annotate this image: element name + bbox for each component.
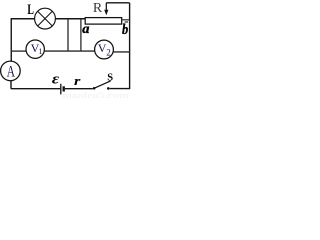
wire: bottom left (ammeter to battery) [11, 88, 60, 90]
switch S: right contact dot [107, 87, 110, 90]
rheostat R body [85, 18, 122, 25]
wire: left vertical branch to voltmeter V1 [11, 50, 26, 52]
svg-text:b: b [122, 22, 128, 38]
switch S: lever [94, 81, 110, 88]
wire: top-left horizontal from corner to lamp [11, 18, 34, 20]
svg-text:1: 1 [39, 47, 43, 56]
wire: ammeter bottom to bottom wire [10, 81, 12, 89]
wire: battery to switch [65, 88, 93, 90]
svg-text:a: a [82, 21, 89, 36]
svg-text:L: L [27, 2, 34, 18]
svg-text:A: A [7, 63, 16, 80]
ammeter A [1, 61, 21, 81]
wire: V1 to V2 [44, 50, 94, 52]
wire: rheostat right terminal b to right vertical [122, 19, 130, 21]
wire: right vertical (slider/b down to bottom right corner) [129, 3, 131, 89]
wire: lamp to rheostat [55, 18, 85, 20]
rheostat slider arrow [104, 3, 108, 15]
battery cell: long plate [60, 84, 62, 95]
svg-text:ε: ε [52, 72, 59, 88]
wire: switch to bottom right corner [110, 88, 131, 90]
svg-text:manfen5.com: manfen5.com [63, 91, 130, 99]
wire: slider top to right vertical [106, 2, 129, 4]
voltmeter V1 [26, 40, 44, 58]
battery cell: short thick plate [63, 86, 65, 91]
wire: left vertical from top corner down to ammeter [10, 18, 12, 61]
svg-text:r: r [74, 74, 81, 88]
wire: tap vertical 2 (top wire to V1-V2 wire) [80, 19, 82, 51]
svg-text:R: R [93, 1, 103, 16]
voltmeter V2 [95, 40, 114, 59]
svg-text:S: S [107, 73, 113, 84]
svg-text:2: 2 [106, 47, 111, 57]
wire: tap vertical 1 (top wire to V1-V2 wire) [67, 19, 69, 51]
lamp L symbol (circle with X) [35, 8, 56, 29]
junction blob at rheostat terminal b [125, 21, 128, 23]
switch S: left contact dot [93, 87, 96, 90]
wire: V2 right to right vertical [113, 51, 129, 53]
